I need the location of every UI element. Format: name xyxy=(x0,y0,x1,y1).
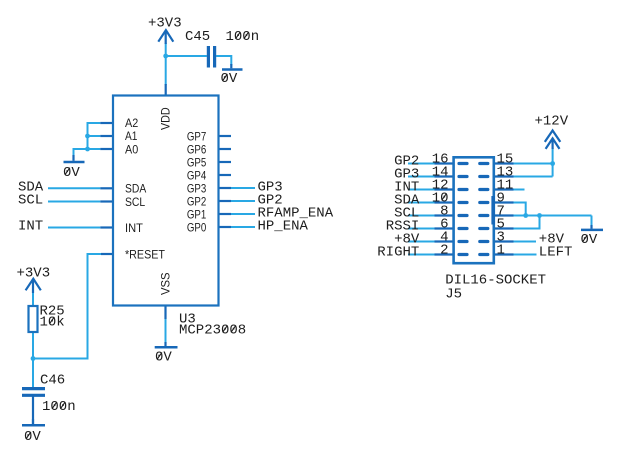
svg-text:A0: A0 xyxy=(125,142,138,156)
svg-text:INT: INT xyxy=(125,221,143,235)
svg-text:VSS: VSS xyxy=(159,272,173,295)
svg-text:C45: C45 xyxy=(185,29,210,45)
svg-text:GP5: GP5 xyxy=(187,155,206,169)
svg-text:+3V3: +3V3 xyxy=(17,266,51,282)
svg-text:RIGHT: RIGHT xyxy=(377,245,419,261)
svg-text:0V: 0V xyxy=(221,71,238,87)
svg-text:GP0: GP0 xyxy=(187,220,206,234)
svg-text:SCL: SCL xyxy=(18,193,43,209)
svg-text:GP3: GP3 xyxy=(187,181,206,195)
svg-text:GP1: GP1 xyxy=(187,207,206,221)
svg-text:10k: 10k xyxy=(40,314,65,330)
svg-text:*RESET: *RESET xyxy=(125,247,165,261)
svg-text:1: 1 xyxy=(497,243,505,259)
svg-text:GP2: GP2 xyxy=(187,194,206,208)
svg-text:J5: J5 xyxy=(445,287,462,303)
svg-text:100n: 100n xyxy=(226,29,260,45)
svg-text:VDD: VDD xyxy=(159,107,173,130)
svg-text:GP6: GP6 xyxy=(187,142,206,156)
svg-text:0V: 0V xyxy=(24,429,41,445)
svg-text:HP_ENA: HP_ENA xyxy=(258,218,309,234)
svg-text:A2: A2 xyxy=(125,116,138,130)
svg-text:MCP23008: MCP23008 xyxy=(179,323,246,339)
svg-text:2: 2 xyxy=(440,243,448,259)
svg-text:A1: A1 xyxy=(125,129,137,143)
svg-text:0V: 0V xyxy=(63,165,80,181)
svg-text:0V: 0V xyxy=(581,232,598,248)
svg-text:GP7: GP7 xyxy=(187,129,206,143)
svg-text:SCL: SCL xyxy=(125,195,145,209)
svg-text:SDA: SDA xyxy=(125,182,147,196)
svg-text:0V: 0V xyxy=(155,350,172,366)
svg-text:GP4: GP4 xyxy=(187,168,206,182)
svg-text:LEFT: LEFT xyxy=(539,245,573,261)
svg-text:100n: 100n xyxy=(42,399,76,415)
svg-text:INT: INT xyxy=(18,218,43,234)
svg-text:C46: C46 xyxy=(40,372,65,388)
svg-text:+12V: +12V xyxy=(535,114,569,130)
svg-text:+3V3: +3V3 xyxy=(148,16,182,32)
